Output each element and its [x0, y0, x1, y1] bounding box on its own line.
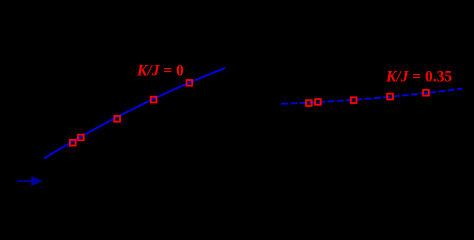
data point square 5 on K/J=0 curve — [187, 80, 193, 86]
data point square 5 on K/J=0.35 curve — [423, 90, 429, 96]
dispersion curve K/J=0 (solid blue) — [44, 68, 225, 158]
data point square 2 on K/J=0 curve — [78, 135, 84, 141]
data point square 3 on K/J=0.35 curve — [351, 97, 357, 103]
svg-text:K/J = 0: K/J = 0 — [136, 63, 184, 80]
svg-text:K/J = 0.35: K/J = 0.35 — [385, 69, 452, 86]
data point square 3 on K/J=0 curve — [114, 116, 120, 122]
data point square 4 on K/J=0 curve — [151, 97, 157, 103]
dispersion curve K/J=0.35 (dashed blue) — [281, 89, 462, 104]
data point square 1 on K/J=0 curve — [70, 140, 76, 146]
arrow (dark blue, pointing right) — [17, 176, 43, 186]
data point square 4 on K/J=0.35 curve — [387, 94, 393, 100]
data point square 2 on K/J=0.35 curve — [315, 99, 321, 105]
data point square 1 on K/J=0.35 curve — [306, 100, 312, 106]
